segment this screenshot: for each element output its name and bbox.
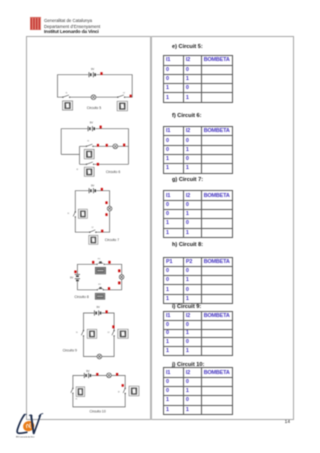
svg-text:I1: I1 [67,213,70,215]
svg-text:9V: 9V [70,276,73,280]
svg-text:I2: I2 [76,169,79,171]
svg-text:Circuito 7: Circuito 7 [105,238,119,242]
svg-text:I1: I1 [87,140,90,142]
svg-text:I2: I2 [108,332,111,334]
svg-text:Circuito 9: Circuito 9 [63,349,77,353]
svg-text:9V: 9V [97,305,100,309]
svg-text:I2: I2 [92,227,95,229]
svg-text:I1: I1 [75,399,78,401]
svg-text:Circuito 8: Circuito 8 [74,295,88,299]
svg-text:9V: 9V [86,369,89,373]
svg-text:Circuito 6: Circuito 6 [106,170,120,174]
svg-text:I2: I2 [123,92,126,94]
svg-text:I1: I1 [66,93,69,95]
svg-text:9V: 9V [90,120,93,124]
svg-text:IES Leonardo da Vinci: IES Leonardo da Vinci [16,436,35,439]
svg-text:P1: P1 [98,259,101,261]
svg-text:Circuito 10: Circuito 10 [90,409,106,413]
svg-text:I1: I1 [76,332,79,334]
svg-text:I2: I2 [118,391,121,393]
svg-text:P2: P2 [98,284,101,286]
svg-text:Circuito 5: Circuito 5 [87,106,101,110]
svg-text:9V: 9V [91,67,94,71]
svg-text:9V: 9V [91,183,94,187]
